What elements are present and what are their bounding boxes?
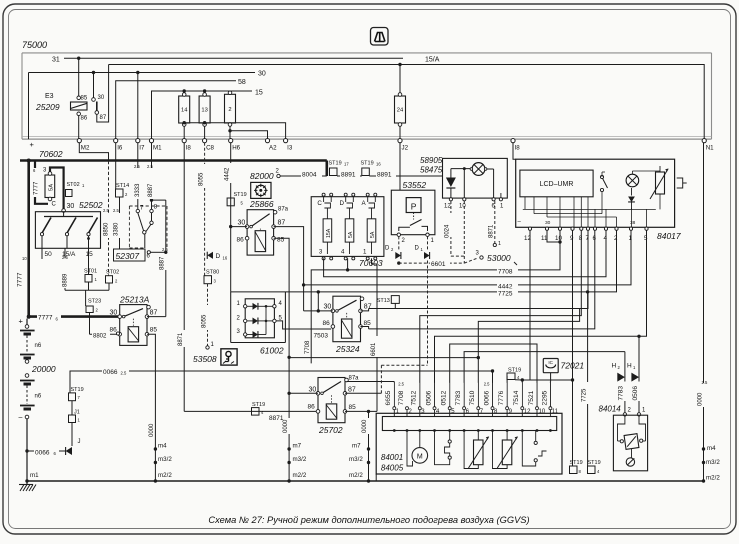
svg-text:85: 85: [150, 327, 158, 334]
svg-text:16: 16: [223, 256, 228, 261]
svg-text:1: 1: [642, 408, 646, 414]
wire 25866-85 down: [274, 238, 290, 481]
svg-text:87a: 87a: [349, 376, 360, 382]
svg-text:7725: 7725: [498, 291, 513, 298]
svg-text:m2/2: m2/2: [293, 472, 307, 479]
svg-text:61002: 61002: [260, 346, 284, 356]
svg-text:1: 1: [500, 204, 504, 210]
wire 8889: [64, 248, 66, 290]
svg-text:30: 30: [67, 203, 75, 210]
wire 8871 from I8 down: [183, 143, 185, 412]
wire 8802: [90, 333, 119, 335]
sensor resistor in 84017: [656, 172, 665, 194]
svg-text:m3/2: m3/2: [706, 459, 720, 466]
svg-text:6: 6: [466, 409, 470, 415]
wire 6601 solid from 70603-1: [372, 258, 378, 411]
wire 8887 from 52307-6 to 25213A-87: [165, 200, 167, 317]
bundle h 7783 y=351.6: [464, 352, 625, 409]
diode block 61002: [230, 143, 232, 292]
svg-text:1: 1: [78, 418, 81, 423]
svg-text:17: 17: [344, 162, 349, 167]
svg-text:7510: 7510: [469, 390, 476, 405]
dashed 6601 horiz: [397, 261, 400, 264]
svg-text:Схема № 27: Ручной режим допол: Схема № 27: Ручной режим дополнительного…: [208, 515, 529, 525]
svg-text:4: 4: [261, 410, 264, 415]
bus bar of 75000: [22, 138, 712, 140]
bundle h y=344: [450, 344, 537, 409]
svg-text:8887: 8887: [148, 183, 154, 197]
svg-text:84005: 84005: [381, 464, 404, 473]
svg-text:7777: 7777: [17, 272, 24, 287]
svg-text:+: +: [19, 317, 24, 326]
svg-text:30: 30: [98, 95, 105, 101]
svg-text:C: C: [317, 200, 322, 207]
svg-text:3: 3: [476, 251, 480, 257]
motor M: [419, 431, 421, 448]
wire J2 down to 53552: [399, 143, 401, 191]
svg-text:8055: 8055: [201, 314, 207, 328]
61002 pin5 wire 7503: [276, 321, 331, 329]
svg-text:C: C: [52, 202, 57, 208]
svg-text:7: 7: [78, 395, 81, 400]
svg-text:30: 30: [238, 220, 246, 227]
svg-text:87: 87: [278, 220, 286, 227]
svg-text:2.5: 2.5: [62, 255, 68, 260]
svg-text:86: 86: [110, 327, 118, 334]
right edge column N1 down: [703, 143, 705, 481]
svg-text:5: 5: [451, 409, 455, 415]
svg-text:P: P: [411, 202, 417, 212]
svg-text:H: H: [612, 363, 617, 370]
7725 col down: [587, 292, 589, 466]
svg-text:31: 31: [52, 57, 60, 64]
svg-text:1: 1: [421, 247, 424, 252]
col 12 84017 down to ST19 line: [522, 230, 530, 380]
bundle h y=315.6: [420, 230, 582, 408]
svg-text:1: 1: [396, 409, 400, 415]
fusebox 70603: [311, 197, 384, 257]
svg-text:m3/2: m3/2: [349, 456, 363, 463]
wire 15: [152, 91, 253, 139]
84001 to ground: [375, 474, 377, 481]
branch to 53000: [464, 259, 476, 264]
diode J: [66, 447, 72, 455]
svg-text:86: 86: [308, 404, 316, 411]
svg-text:ST19: ST19: [570, 460, 583, 466]
svg-text:5A: 5A: [370, 231, 376, 238]
svg-text:30: 30: [110, 310, 118, 317]
svg-text:58475: 58475: [420, 166, 443, 175]
svg-text:m3/2: m3/2: [158, 456, 172, 463]
svg-text:m2/2: m2/2: [706, 475, 720, 482]
svg-text:86: 86: [237, 237, 245, 244]
svg-text:86: 86: [81, 116, 88, 122]
col 11 joins col 10 under 84017: [547, 230, 560, 242]
ignition switch 52502: [35, 212, 100, 249]
wire 8871 horizontal to 25702: [184, 410, 318, 412]
top warning icon: [371, 28, 389, 46]
LCD-UMR: [520, 170, 593, 197]
bundle h 0506 y=336.3: [435, 230, 647, 408]
var resistor 2: [506, 431, 508, 441]
wire 8055 from C8: [204, 143, 206, 276]
m7 labels col 289: [287, 447, 290, 450]
svg-text:24: 24: [397, 108, 404, 114]
bundle h y=328.9: [369, 230, 595, 329]
svg-text:25324: 25324: [335, 344, 360, 354]
unit 84017: [516, 159, 675, 227]
svg-text:2: 2: [628, 408, 632, 414]
svg-text:A: A: [362, 200, 367, 207]
svg-text:84014: 84014: [599, 405, 622, 414]
svg-text:9: 9: [509, 409, 513, 415]
svg-text:A2: A2: [269, 145, 277, 152]
svg-text:25213A: 25213A: [119, 295, 150, 305]
58905 pins: [449, 198, 452, 201]
svg-text:3333: 3333: [135, 183, 141, 197]
svg-text:6: 6: [147, 254, 151, 260]
svg-text:2: 2: [618, 365, 621, 370]
svg-text:38: 38: [630, 220, 636, 226]
svg-text:7514: 7514: [513, 390, 520, 405]
svg-text:–: –: [518, 220, 522, 226]
svg-text:12: 12: [524, 409, 531, 415]
svg-text:D: D: [216, 253, 221, 260]
bundle h ST13 y=308.5: [369, 230, 588, 308]
svg-text:70602: 70602: [39, 149, 63, 159]
svg-text:I8: I8: [515, 145, 521, 152]
wire 0000 from 25213A-85 down: [147, 334, 155, 481]
wire 25324-85: [361, 327, 369, 329]
svg-text:0000: 0000: [697, 392, 703, 406]
svg-text:82000: 82000: [250, 171, 274, 181]
thick wire fuse to 52502 pin 30: [50, 168, 64, 209]
svg-text:m2/2: m2/2: [349, 472, 363, 479]
svg-text:10: 10: [539, 409, 546, 415]
bundle h y=357.6: [289, 357, 478, 359]
svg-text:14: 14: [181, 108, 188, 114]
svg-text:7512: 7512: [411, 390, 418, 405]
unit 84001/84005 box: [376, 413, 562, 474]
dashed 8871b: [463, 201, 465, 263]
bus 7777 to battery: [29, 315, 120, 318]
52502 pin stubs below: [41, 248, 43, 259]
diode in 58905: [450, 169, 452, 178]
bundle h 7708 y=269.9: [311, 230, 560, 363]
svg-text:87: 87: [364, 304, 372, 311]
svg-text:7: 7: [480, 409, 484, 415]
left feed 7777 vertical: [27, 161, 30, 319]
svg-text:3: 3: [237, 329, 241, 335]
52307 contacts: [136, 209, 139, 212]
0000 col x368: [368, 411, 370, 481]
svg-text:2: 2: [402, 238, 406, 244]
wire 25324-87 to bundle: [361, 309, 369, 311]
svg-text:15: 15: [255, 90, 263, 97]
84001 pin row: [393, 407, 396, 410]
svg-text:2: 2: [115, 279, 118, 284]
svg-text:M: M: [417, 453, 423, 460]
fuse 14: [179, 96, 190, 123]
svg-text:1: 1: [237, 301, 241, 307]
svg-text:5A: 5A: [348, 231, 354, 238]
svg-text:4: 4: [341, 249, 345, 256]
svg-text:0506: 0506: [425, 390, 432, 405]
svg-text:7783: 7783: [618, 386, 625, 401]
svg-text:2.5: 2.5: [702, 380, 708, 385]
svg-text:8891: 8891: [341, 172, 356, 179]
svg-text:1: 1: [82, 183, 85, 188]
58905 internal wires: [451, 168, 470, 170]
bundle h 7725 y=291.9: [231, 230, 617, 292]
wire 4442 from H6: [226, 163, 235, 183]
svg-text:85: 85: [277, 237, 285, 244]
svg-text:ST13: ST13: [377, 298, 390, 304]
svg-text:J: J: [78, 439, 81, 445]
svg-text:58: 58: [238, 79, 246, 86]
thermal switch 1: [449, 431, 451, 441]
svg-text:2: 2: [391, 247, 394, 252]
lamp in 58905: [472, 163, 485, 176]
svg-text:I6: I6: [117, 145, 123, 152]
svg-text:3: 3: [319, 249, 323, 256]
svg-text:7777: 7777: [38, 315, 53, 322]
wire 8850 from M2: [79, 143, 108, 161]
svg-text:4: 4: [279, 301, 283, 307]
bottom bus m2/2: [27, 480, 704, 482]
svg-text:16: 16: [376, 162, 381, 167]
svg-text:n6: n6: [35, 343, 42, 349]
svg-text:11: 11: [552, 409, 559, 415]
branch 7777-6 to fuse 5A: [34, 161, 36, 169]
svg-text:ST23: ST23: [88, 299, 101, 305]
svg-text:30: 30: [545, 220, 551, 226]
svg-text:8850: 8850: [104, 222, 110, 236]
svg-text:85: 85: [364, 320, 372, 327]
svg-text:25866: 25866: [249, 199, 274, 209]
fuse 24: [395, 96, 406, 123]
svg-text:6601: 6601: [431, 261, 446, 268]
fuse 5A: [45, 175, 55, 198]
svg-text:8: 8: [579, 469, 582, 474]
svg-text:M2: M2: [81, 145, 90, 152]
svg-text:53508: 53508: [193, 354, 217, 364]
thick 7777 drop to 8004 row: [325, 161, 328, 177]
svg-text:13: 13: [201, 108, 207, 114]
svg-text:7708: 7708: [498, 268, 513, 275]
svg-text:85: 85: [349, 404, 357, 411]
bundle h 4442 y=284.9: [304, 230, 631, 285]
svg-text:8055: 8055: [199, 172, 205, 186]
svg-text:3: 3: [421, 409, 425, 415]
svg-text:3: 3: [214, 279, 217, 284]
svg-text:H: H: [627, 363, 632, 370]
svg-text:1: 1: [363, 249, 367, 256]
svg-text:8871: 8871: [489, 224, 495, 238]
svg-text:1: 1: [95, 277, 98, 282]
svg-text:8871: 8871: [178, 332, 184, 346]
svg-text:m2/2: m2/2: [158, 472, 172, 479]
svg-text:1: 1: [498, 241, 501, 247]
wire 3380: [119, 197, 121, 249]
svg-text:N1: N1: [706, 145, 714, 152]
svg-text:30: 30: [258, 71, 266, 78]
svg-text:70603: 70603: [359, 258, 383, 268]
svg-text:m1: m1: [30, 472, 39, 479]
svg-text:E3: E3: [45, 93, 54, 100]
svg-text:8891: 8891: [377, 172, 392, 179]
svg-text:0506: 0506: [632, 386, 639, 401]
svg-text:ST01: ST01: [84, 269, 97, 275]
svg-text:52307: 52307: [116, 251, 140, 261]
svg-text:6: 6: [33, 168, 36, 173]
svg-text:ST19: ST19: [329, 161, 342, 167]
svg-text:7777: 7777: [34, 181, 40, 195]
svg-text:1: 1: [431, 238, 435, 244]
svg-text:D: D: [340, 200, 345, 207]
svg-text:2: 2: [125, 192, 128, 197]
svg-text:8802: 8802: [93, 333, 107, 339]
svg-text:6655: 6655: [385, 390, 392, 405]
bus 70602: [20, 159, 327, 162]
switch 2: [535, 431, 537, 442]
svg-text:12: 12: [444, 204, 451, 210]
svg-text:0512: 0512: [441, 390, 448, 405]
svg-text:4: 4: [436, 409, 440, 415]
wire to 25324-30: [304, 310, 333, 312]
svg-text:30: 30: [309, 387, 317, 394]
84017 pin9 long column down to ST19-8: [572, 230, 574, 466]
svg-text:2: 2: [409, 409, 413, 415]
svg-text:0024: 0024: [445, 224, 451, 238]
dashed D1 link 6601: [381, 364, 427, 366]
svg-text:5A: 5A: [49, 184, 55, 191]
svg-text:0000: 0000: [362, 419, 368, 433]
svg-text:0066: 0066: [103, 369, 118, 376]
svg-text:8: 8: [154, 205, 158, 211]
wire 25702-87a to 6655: [347, 381, 395, 383]
svg-text:8871: 8871: [269, 415, 284, 422]
svg-text:84001: 84001: [381, 453, 403, 462]
svg-text:m4: m4: [158, 443, 167, 450]
svg-text:2: 2: [96, 308, 99, 313]
svg-text:8: 8: [494, 409, 498, 415]
svg-text:D: D: [385, 246, 390, 252]
svg-text:25209: 25209: [35, 102, 60, 112]
52307 label box: [114, 249, 146, 261]
svg-text:2295: 2295: [541, 390, 548, 405]
svg-text:4442: 4442: [225, 167, 231, 181]
84017 pins: [528, 227, 531, 230]
svg-text:8887: 8887: [160, 256, 166, 270]
fuse 2: [225, 94, 236, 123]
wire 25702-85 right: [345, 410, 377, 412]
svg-text:ST19: ST19: [588, 460, 601, 466]
svg-text:5: 5: [241, 201, 244, 206]
svg-text:30: 30: [324, 304, 332, 311]
svg-text:–: –: [19, 414, 23, 421]
svg-text:25702: 25702: [318, 425, 343, 435]
wire 30 bus: [29, 72, 256, 74]
svg-text:ST19: ST19: [234, 192, 247, 198]
svg-text:m7: m7: [293, 443, 302, 450]
svg-text:I8: I8: [186, 145, 192, 152]
svg-text:87: 87: [100, 115, 107, 121]
svg-text:H6: H6: [232, 145, 240, 152]
wire I6 to ST14: [115, 143, 117, 189]
svg-text:53552: 53552: [403, 180, 427, 190]
84001 internal drops: [393, 413, 395, 416]
lamp in 84017: [626, 174, 639, 187]
svg-text:72021: 72021: [561, 361, 585, 371]
svg-text:7783: 7783: [455, 390, 462, 405]
wire to 25702-30: [289, 392, 318, 394]
svg-text:0066: 0066: [483, 390, 490, 405]
svg-text:m4: m4: [707, 445, 716, 452]
wire 15 to ST01: [88, 248, 90, 274]
dashed 0024: [450, 201, 452, 256]
svg-text:ST80: ST80: [206, 270, 219, 276]
svg-text:2: 2: [237, 315, 241, 321]
svg-text:75000: 75000: [22, 40, 47, 50]
svg-text:7725: 7725: [582, 388, 588, 402]
svg-text:86: 86: [323, 320, 331, 327]
svg-text:0000: 0000: [283, 419, 289, 433]
svg-text:7708: 7708: [398, 390, 405, 405]
svg-text:M1: M1: [153, 145, 162, 152]
svg-text:87: 87: [348, 387, 356, 394]
svg-text:15: 15: [86, 251, 94, 258]
svg-text:85: 85: [81, 96, 88, 102]
wire 25702-87 to dashed 6601: [345, 392, 381, 394]
svg-text:2.5: 2.5: [121, 371, 127, 376]
svg-text:J2: J2: [402, 145, 409, 152]
junction bus 8889/ST01/ST02: [65, 289, 109, 291]
svg-text:6601: 6601: [371, 342, 377, 356]
svg-text:+: +: [30, 140, 35, 149]
fuse outputs step wires: [183, 126, 185, 138]
fuse 13: [199, 96, 210, 123]
svg-text:2.5: 2.5: [398, 382, 404, 387]
svg-text:m7: m7: [352, 443, 361, 450]
61002 outer box: [230, 292, 232, 343]
arrow D16: [207, 252, 213, 259]
col 0066 touch: [492, 371, 494, 409]
svg-text:7708: 7708: [305, 340, 311, 354]
wire I8 down to 84017: [513, 143, 516, 160]
svg-text:7521: 7521: [528, 390, 535, 405]
svg-text:ST19: ST19: [71, 387, 84, 393]
svg-text:ST19: ST19: [361, 161, 374, 167]
svg-text:3380: 3380: [113, 222, 119, 236]
svg-text:7776: 7776: [498, 390, 505, 405]
svg-text:ST02: ST02: [106, 270, 119, 276]
svg-text:10: 10: [22, 256, 27, 261]
svg-text:I3: I3: [287, 145, 293, 152]
svg-text:4: 4: [517, 375, 520, 380]
svg-text:53000: 53000: [487, 253, 511, 263]
svg-text:n6: n6: [35, 394, 42, 400]
svg-text:87a: 87a: [278, 207, 289, 213]
switch in 84017: [600, 175, 603, 178]
svg-text:1: 1: [633, 365, 636, 370]
svg-text:50: 50: [45, 251, 53, 258]
svg-text:m3/2: m3/2: [293, 456, 307, 463]
svg-text:IC: IC: [548, 360, 553, 365]
wire 6655: 25702-87a to 84001 pin1: [393, 382, 395, 409]
svg-text:2.5: 2.5: [103, 208, 109, 213]
var resistor 1: [477, 431, 479, 441]
